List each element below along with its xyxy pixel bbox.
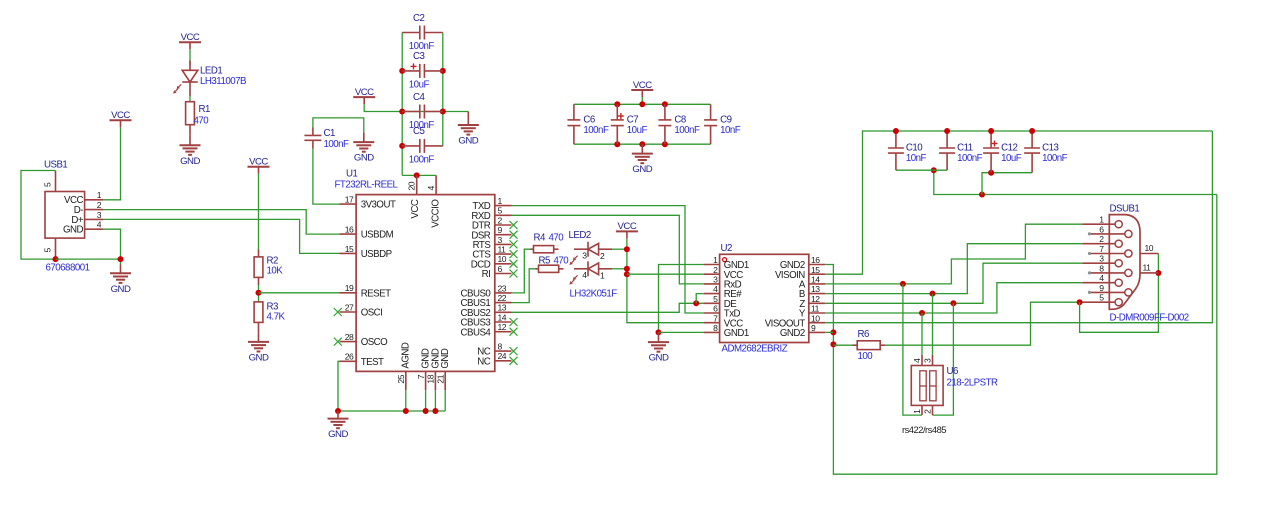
junction bottom rail bbox=[639, 141, 645, 147]
label C11 name bbox=[957, 143, 973, 154]
U2 pin 15 VISOIN bbox=[775, 265, 825, 281]
label rs422/rs485 bbox=[902, 424, 946, 435]
wire VCC to LED1 anode bbox=[189, 49, 191, 65]
svg-text:C1: C1 bbox=[324, 128, 335, 139]
svg-text:23: 23 bbox=[498, 283, 507, 293]
label C4 name bbox=[413, 92, 425, 103]
svg-text:1: 1 bbox=[97, 190, 102, 200]
label C6 value 100nF bbox=[583, 125, 609, 136]
capacitor C10 bbox=[888, 131, 904, 170]
capacitor C4 bbox=[402, 105, 443, 119]
svg-text:12: 12 bbox=[498, 322, 507, 332]
U2 pin 9 GND2 bbox=[780, 323, 825, 339]
junction top rail bbox=[662, 101, 668, 107]
junction GND2/pin9 bbox=[830, 329, 836, 335]
svg-text:GND2: GND2 bbox=[780, 328, 805, 339]
U1 pin 7 GND (bottom) bbox=[416, 348, 432, 390]
label U6 name bbox=[947, 366, 958, 377]
label LED1 name bbox=[200, 66, 222, 77]
VCC supply (C6-C9) bbox=[631, 80, 653, 97]
wire AGND drop bbox=[405, 390, 407, 411]
svg-text:GND: GND bbox=[249, 353, 269, 364]
U2 pin 6 TxD bbox=[704, 304, 741, 320]
resistor R1 bbox=[186, 102, 195, 136]
wire Z net to DSUB1 pin3 bbox=[825, 263, 1082, 303]
svg-text:7: 7 bbox=[416, 374, 426, 379]
U1 pin 5 RXD bbox=[471, 206, 511, 222]
svg-text:USBDM: USBDM bbox=[361, 230, 394, 241]
label R6 name bbox=[858, 329, 869, 340]
svg-text:10uF: 10uF bbox=[409, 79, 430, 90]
junction VCC/LED2B bbox=[624, 266, 630, 272]
svg-text:100nF: 100nF bbox=[324, 139, 350, 150]
svg-text:CBUS4: CBUS4 bbox=[460, 327, 491, 338]
svg-text:3: 3 bbox=[97, 210, 102, 220]
wire CBUS0 to R4 bbox=[512, 249, 531, 293]
svg-text:1: 1 bbox=[498, 196, 503, 206]
label C5 value 100nF bbox=[409, 154, 435, 165]
label U2 value ADM2682EBRIZ bbox=[722, 343, 788, 354]
svg-text:VCC: VCC bbox=[249, 157, 268, 168]
label R3 value 4.7K bbox=[267, 312, 286, 323]
label R1 value 470 bbox=[194, 116, 210, 127]
capacitor C5 bbox=[402, 139, 443, 153]
U1 pin 2 DTR bbox=[472, 215, 512, 231]
wire USB pin4 to GND bbox=[103, 229, 121, 264]
svg-text:GND1: GND1 bbox=[724, 328, 749, 339]
U1 pin 1 TXD bbox=[472, 196, 511, 212]
no-connect X on U1 DTR pin 2 bbox=[510, 221, 518, 229]
svg-text:9: 9 bbox=[498, 225, 503, 235]
svg-text:22: 22 bbox=[498, 293, 507, 303]
U1 pin 6 RI bbox=[482, 264, 512, 280]
U1 pin 12 CBUS4 bbox=[460, 322, 511, 338]
svg-text:21: 21 bbox=[435, 374, 445, 383]
svg-text:10: 10 bbox=[811, 313, 820, 323]
svg-text:LH311007B: LH311007B bbox=[200, 76, 246, 87]
U1 pin 21 GND (bottom) bbox=[435, 348, 451, 390]
junction bottom rail bbox=[662, 141, 668, 147]
label U1 name bbox=[346, 168, 357, 179]
wire cap rail to U1 VCC/VCCIO pins bbox=[402, 174, 436, 176]
label C12 name bbox=[1001, 143, 1017, 154]
label LED2 name bbox=[569, 230, 591, 241]
LED LED2 element A (pins 3-2) bbox=[569, 242, 612, 265]
svg-text:11: 11 bbox=[498, 245, 507, 255]
label R4 name bbox=[534, 232, 546, 243]
label C13 name bbox=[1042, 143, 1058, 154]
IC U1 FT232RL body bbox=[356, 195, 495, 372]
capacitor C3 bbox=[402, 63, 443, 78]
U2 pin 16 GND2 bbox=[780, 255, 825, 271]
wire C2-C5 left rail bbox=[401, 33, 403, 176]
U1 pin 28 OSCO bbox=[340, 332, 389, 348]
wire R2 to R3 bbox=[258, 285, 260, 302]
label C9 value 10nF bbox=[720, 125, 741, 136]
label DSUB1 name bbox=[1110, 203, 1140, 214]
U2 pin 5 DE bbox=[704, 294, 738, 310]
svg-text:218-2LPSTR: 218-2LPSTR bbox=[947, 377, 999, 388]
ground stub (R1) bbox=[189, 135, 191, 145]
capacitor C13 bbox=[1024, 131, 1040, 173]
junction left rail C3 bbox=[399, 68, 405, 74]
svg-text:VCCIO: VCCIO bbox=[430, 199, 441, 228]
U1 pin 18 GND (bottom) bbox=[426, 348, 442, 390]
U2 pin 10 VISOOUT bbox=[765, 313, 826, 329]
svg-text:26: 26 bbox=[345, 352, 354, 362]
no-connect X on U1 NC pin 8 bbox=[510, 347, 518, 355]
label U1 value FT232RL-REEL bbox=[335, 180, 399, 191]
junction GND2/R6 bbox=[830, 341, 836, 347]
junction C10 top bbox=[893, 128, 899, 134]
junction top rail bbox=[639, 101, 645, 107]
label R5 name bbox=[539, 255, 550, 266]
U1 pin 10 DCD bbox=[471, 254, 512, 270]
wire CBUS1 to R5 bbox=[512, 269, 536, 303]
ground stub (R3) bbox=[258, 332, 260, 342]
svg-text:5: 5 bbox=[1099, 293, 1104, 303]
junction top rail bbox=[614, 101, 620, 107]
svg-text:15: 15 bbox=[811, 265, 820, 275]
switch U6 body bbox=[911, 355, 943, 415]
svg-text:3: 3 bbox=[1099, 254, 1104, 264]
label C12 value 10uF bbox=[1001, 153, 1022, 164]
wire Y net to DSUB1 pin4 bbox=[825, 283, 1082, 313]
svg-text:25: 25 bbox=[396, 374, 406, 383]
junction USB GND node bbox=[118, 256, 124, 262]
wire VCC to cap top rail bbox=[641, 97, 643, 104]
svg-text:U2: U2 bbox=[721, 243, 732, 254]
ground GND symbol (C1) bbox=[353, 142, 374, 164]
junction R2/R3/RESET bbox=[256, 290, 262, 296]
svg-text:GND: GND bbox=[440, 348, 451, 369]
wire U1 TEST/GND rail bbox=[338, 361, 445, 411]
junction DE/RE# bbox=[693, 300, 699, 306]
svg-text:8: 8 bbox=[1099, 263, 1104, 273]
junction B / U6 pin3 bbox=[930, 291, 936, 297]
junction C12 top bbox=[988, 128, 994, 134]
label U2 name bbox=[721, 243, 732, 254]
svg-text:4.7K: 4.7K bbox=[267, 312, 286, 323]
svg-text:10nF: 10nF bbox=[720, 125, 741, 136]
svg-text:VCC: VCC bbox=[410, 199, 421, 218]
wire C6-C9 bottom rail bbox=[574, 143, 711, 145]
junction USB shield / GND bbox=[53, 256, 59, 262]
U1 pin 24 NC bbox=[477, 351, 511, 367]
wire C10/C11 rail to GND2 bbox=[934, 170, 1217, 194]
wire to U2 pin8 GND1 bbox=[659, 331, 704, 333]
svg-text:RI: RI bbox=[482, 269, 491, 280]
svg-text:27: 27 bbox=[345, 302, 354, 312]
svg-text:4: 4 bbox=[912, 358, 922, 363]
svg-text:7: 7 bbox=[713, 313, 718, 323]
label LED1 value LH311007B bbox=[200, 76, 246, 87]
svg-text:11: 11 bbox=[1143, 263, 1152, 273]
svg-text:5: 5 bbox=[713, 294, 718, 304]
wire VCC to cap rail and GND bbox=[364, 104, 468, 111]
junction U1 VCC pin rail bbox=[414, 172, 420, 178]
ground stub (C6-C9) bbox=[641, 144, 643, 153]
svg-text:FT232RL-REEL: FT232RL-REEL bbox=[335, 180, 399, 191]
svg-text:C4: C4 bbox=[413, 92, 425, 103]
svg-text:2: 2 bbox=[600, 251, 605, 261]
VCC supply (U2) bbox=[616, 221, 638, 238]
U1 pin 16 USBDM bbox=[340, 225, 394, 241]
junction GND7 bbox=[423, 408, 429, 414]
junction left rail C5 bbox=[399, 143, 405, 149]
svg-text:14: 14 bbox=[811, 275, 820, 285]
svg-text:24: 24 bbox=[498, 351, 507, 361]
svg-text:GND: GND bbox=[458, 136, 478, 147]
wire LED2 B anode to VCC bbox=[612, 268, 627, 270]
wire C6-C9 top rail bbox=[574, 103, 711, 105]
U1 pin 3 RTS bbox=[473, 235, 512, 251]
svg-text:1: 1 bbox=[600, 271, 605, 281]
no-connect X on U1 RI pin 6 bbox=[510, 270, 518, 278]
svg-text:20: 20 bbox=[407, 181, 417, 190]
ground GND symbol (R1) bbox=[180, 145, 201, 167]
label C3 value 10uF bbox=[409, 79, 430, 90]
U1 pin 19 RESET bbox=[340, 283, 392, 299]
svg-text:R5: R5 bbox=[539, 255, 550, 266]
svg-text:2: 2 bbox=[713, 265, 718, 275]
svg-text:3: 3 bbox=[923, 358, 933, 363]
U2 pin 14 A bbox=[799, 275, 825, 291]
ground GND symbol (USB) bbox=[110, 273, 131, 295]
svg-text:12: 12 bbox=[811, 294, 820, 304]
ground GND symbol (C2 group) bbox=[458, 125, 479, 147]
no-connect X on U1 CBUS4 pin 12 bbox=[510, 328, 518, 336]
label C4 value 100nF bbox=[409, 120, 435, 131]
U1 pin 11 CTS bbox=[472, 245, 511, 261]
svg-text:GND: GND bbox=[180, 156, 200, 167]
junction C10-C11 rail bbox=[931, 167, 937, 173]
svg-text:GND: GND bbox=[354, 153, 374, 164]
wire VISOOUT to VISO rail bbox=[825, 131, 1212, 323]
wire divider to U1 RESET bbox=[259, 292, 340, 294]
label C8 name bbox=[674, 115, 685, 126]
svg-text:4: 4 bbox=[426, 186, 436, 191]
ground GND symbol (R3) bbox=[248, 342, 269, 364]
wire branch to U2 RE# bbox=[696, 294, 703, 304]
no-connect X on U1 CTS pin 11 bbox=[510, 250, 518, 258]
svg-text:100nF: 100nF bbox=[583, 125, 609, 136]
ground stub (C2 group) bbox=[467, 112, 469, 126]
VCC supply (U1) bbox=[353, 87, 375, 104]
U1 pin 15 USBDP bbox=[340, 244, 392, 260]
LED LED1 bbox=[173, 61, 198, 97]
svg-text:R1: R1 bbox=[199, 104, 210, 115]
label USB1 name bbox=[44, 159, 67, 170]
wire USB GND bottom bbox=[56, 258, 121, 260]
svg-text:5: 5 bbox=[43, 248, 53, 253]
LED LED2 element B (pins 4-1) bbox=[569, 261, 612, 284]
label R5 value 470 bbox=[554, 255, 570, 266]
svg-text:ADM2682EBRIZ: ADM2682EBRIZ bbox=[722, 343, 788, 354]
svg-text:19: 19 bbox=[345, 283, 354, 293]
label LED2 value LH32K051F bbox=[570, 288, 618, 299]
svg-text:2: 2 bbox=[923, 409, 933, 414]
wire GND7 drop bbox=[425, 390, 427, 411]
capacitor C2 bbox=[402, 26, 443, 40]
capacitor C9 bbox=[704, 104, 717, 144]
junction right rail C4 bbox=[440, 109, 446, 115]
svg-text:VCC: VCC bbox=[633, 80, 652, 91]
wire GND21 drop bbox=[444, 390, 446, 411]
U1 pin 22 CBUS1 bbox=[460, 293, 511, 309]
resistor R5 bbox=[536, 265, 564, 272]
svg-text:TEST: TEST bbox=[361, 357, 384, 368]
svg-text:5: 5 bbox=[498, 206, 503, 216]
capacitor C11 bbox=[939, 131, 955, 170]
svg-text:9: 9 bbox=[811, 323, 816, 333]
svg-text:100nF: 100nF bbox=[409, 154, 435, 165]
IC U2 ADM2682EBRIZ body bbox=[720, 254, 809, 342]
svg-text:GND: GND bbox=[632, 164, 652, 175]
svg-text:2: 2 bbox=[498, 215, 503, 225]
svg-text:100nF: 100nF bbox=[1042, 153, 1068, 164]
svg-text:470: 470 bbox=[549, 232, 565, 243]
wire LED1 to R1 bbox=[189, 96, 191, 102]
svg-text:VCC: VCC bbox=[181, 32, 200, 43]
junction pin5/shield bbox=[1077, 299, 1083, 305]
svg-text:USBDP: USBDP bbox=[361, 249, 392, 260]
capacitor C7 bbox=[611, 104, 624, 144]
no-connect X on U1 DSR pin 9 bbox=[510, 231, 518, 239]
wire DSUB shield net bbox=[1080, 254, 1159, 333]
svg-text:16: 16 bbox=[811, 255, 820, 265]
svg-text:C2: C2 bbox=[413, 13, 424, 24]
svg-text:15: 15 bbox=[345, 244, 354, 254]
svg-text:13: 13 bbox=[811, 284, 820, 294]
svg-text:100nF: 100nF bbox=[957, 153, 983, 164]
resistor R2 bbox=[254, 250, 263, 286]
svg-text:5: 5 bbox=[43, 182, 53, 187]
svg-text:28: 28 bbox=[345, 332, 354, 342]
label R2 name bbox=[267, 255, 278, 266]
svg-text:VCC: VCC bbox=[355, 87, 374, 98]
junction AGND bbox=[403, 408, 409, 414]
svg-text:18: 18 bbox=[426, 374, 436, 383]
U1 pin 8 NC bbox=[477, 342, 511, 358]
U1 pin 26 TEST bbox=[340, 352, 385, 368]
label C9 name bbox=[720, 115, 731, 126]
wire U6 pin2 to Z bbox=[933, 303, 954, 415]
wire U1 CBUS2 to U2 DE bbox=[512, 303, 704, 312]
svg-text:DSUB1: DSUB1 bbox=[1110, 203, 1140, 214]
svg-text:GND: GND bbox=[328, 429, 348, 440]
svg-text:rs422/rs485: rs422/rs485 bbox=[902, 424, 946, 435]
no-connect X on U1 RTS pin 3 bbox=[510, 240, 518, 248]
wire U2 GND1 pin1 column bbox=[659, 265, 704, 333]
svg-text:670688001: 670688001 bbox=[46, 263, 90, 274]
svg-text:4: 4 bbox=[713, 284, 718, 294]
junction Z / U6 pin2 bbox=[950, 300, 956, 306]
svg-text:OSCI: OSCI bbox=[361, 308, 383, 319]
svg-text:LED2: LED2 bbox=[569, 230, 591, 241]
junction bottom rail bbox=[614, 141, 620, 147]
wire C2-C5 right rail bbox=[442, 33, 444, 146]
label C7 name bbox=[627, 115, 638, 126]
ground stub (U2) bbox=[658, 332, 660, 342]
wire C1 bottom to U1 3V3OUT bbox=[313, 149, 340, 205]
junction GND2 rail / C12-C13 bbox=[979, 192, 985, 198]
svg-text:U1: U1 bbox=[346, 168, 357, 179]
VCC supply (LED1) bbox=[179, 32, 201, 49]
wire B net to DSUB1 pin2 bbox=[825, 244, 1082, 294]
junction U1 gnd rail at symbol bbox=[335, 408, 341, 414]
ground GND symbol (U2) bbox=[648, 342, 669, 364]
svg-text:3: 3 bbox=[498, 235, 503, 245]
svg-text:R6: R6 bbox=[858, 329, 869, 340]
svg-text:16: 16 bbox=[345, 225, 354, 235]
label DSUB1 value D-DMR009FF-D002 bbox=[1110, 313, 1189, 324]
connector DSUB1 body bbox=[1082, 215, 1158, 310]
U2 pin 13 B bbox=[799, 284, 825, 300]
svg-text:8: 8 bbox=[713, 323, 718, 333]
svg-text:4: 4 bbox=[97, 220, 102, 230]
wire GND2 loop net bbox=[825, 195, 1217, 475]
svg-text:1: 1 bbox=[1099, 215, 1104, 225]
ground stub (C1) bbox=[363, 133, 365, 143]
junction Y / U6 pin4 bbox=[919, 310, 925, 316]
no-connect X on U1 DCD pin 10 bbox=[510, 260, 518, 268]
wire U6 pin1 to A bbox=[903, 284, 922, 415]
junction C13 top bbox=[1029, 128, 1035, 134]
svg-text:2: 2 bbox=[1099, 234, 1104, 244]
junction GND1 column bbox=[656, 329, 662, 335]
svg-text:U6: U6 bbox=[947, 366, 958, 377]
wire GND2 to R6 bbox=[833, 344, 852, 346]
svg-text:VCC: VCC bbox=[111, 110, 130, 121]
U1 pin 14 CBUS3 bbox=[460, 312, 511, 328]
label R4 value 470 bbox=[549, 232, 565, 243]
svg-text:10nF: 10nF bbox=[906, 153, 927, 164]
label C10 value 10nF bbox=[906, 153, 927, 164]
wire C10-C11 bottom rail bbox=[896, 169, 947, 171]
label C1 name bbox=[324, 128, 335, 139]
svg-text:3: 3 bbox=[582, 250, 587, 260]
svg-text:NC: NC bbox=[477, 356, 490, 367]
svg-text:USB1: USB1 bbox=[44, 159, 67, 170]
label C2 value 100nF bbox=[409, 41, 435, 52]
resistor R6 bbox=[853, 341, 886, 350]
capacitor C8 bbox=[658, 104, 671, 144]
wire VCC to USB pin1 bbox=[103, 127, 121, 200]
VCC supply (R2) bbox=[248, 157, 270, 174]
no-connect X on U1 CBUS3 pin 14 bbox=[510, 318, 518, 326]
svg-text:OSCO: OSCO bbox=[361, 337, 388, 348]
svg-text:470: 470 bbox=[194, 116, 210, 127]
svg-text:2: 2 bbox=[97, 200, 102, 210]
wire D- net USB to U1 USBDM bbox=[103, 210, 340, 235]
wire B to U6 pin3 bbox=[932, 294, 934, 355]
svg-text:GND: GND bbox=[63, 225, 84, 236]
U2 pin 7 VCC bbox=[704, 313, 744, 329]
label C2 name bbox=[413, 13, 424, 24]
wire LED2 A anode to VCC bbox=[612, 248, 627, 250]
junction GND18 bbox=[432, 408, 438, 414]
svg-text:1: 1 bbox=[713, 255, 718, 265]
wire GND18 drop bbox=[434, 390, 436, 411]
label C6 name bbox=[583, 115, 594, 126]
svg-text:470: 470 bbox=[554, 255, 570, 266]
label R1 name bbox=[199, 104, 210, 115]
junction VCC/LED2A bbox=[624, 246, 630, 252]
svg-text:6: 6 bbox=[498, 264, 503, 274]
svg-text:10: 10 bbox=[1145, 243, 1154, 253]
ground GND symbol (U1) bbox=[328, 419, 349, 441]
